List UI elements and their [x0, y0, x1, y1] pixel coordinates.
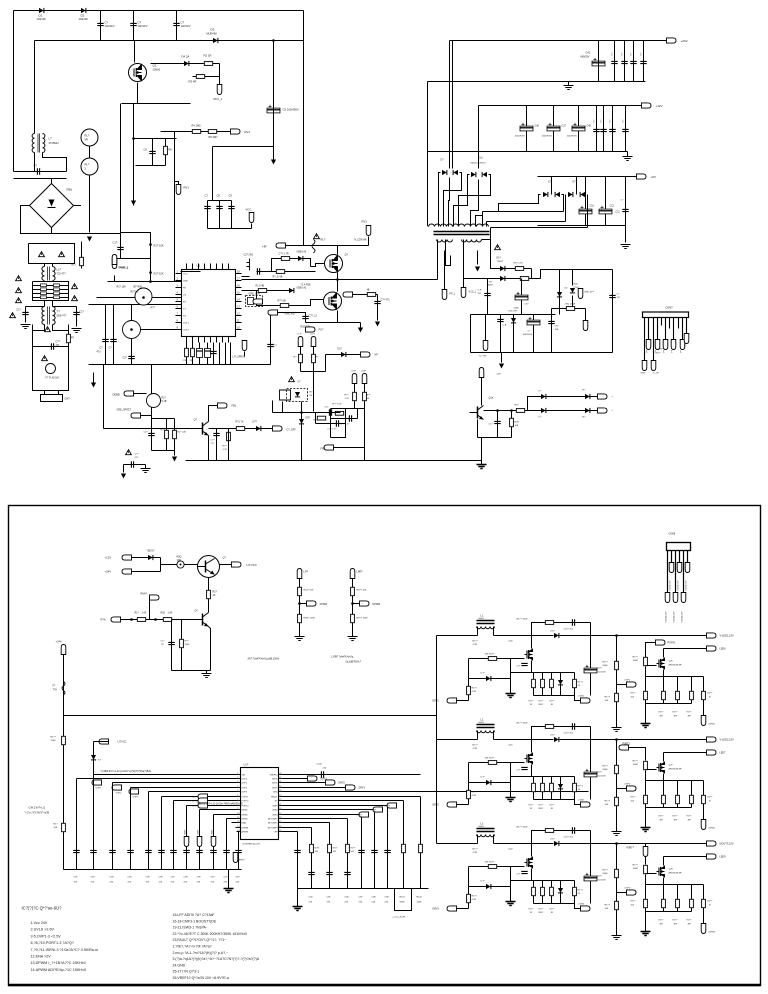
- flag DIM1: [581, 698, 591, 703]
- ground gnd c25: [141, 469, 151, 473]
- svg-text:T.R: T.R: [489, 282, 493, 284]
- svg-text:-GN?: -GN?: [658, 349, 664, 351]
- capacitor C56: [497, 319, 503, 321]
- optocoupler U3: [287, 389, 308, 402]
- svg-text:10K R1??: 10K R1??: [485, 758, 496, 760]
- svg-text:R1??: R1??: [605, 697, 611, 699]
- svg-text:?-1?o-,?(?)?A(?)?+a?B: ?-1?o-,?(?)?A(?)?+a?B: [25, 812, 50, 815]
- wire x477 arrow: [477, 251, 479, 265]
- wire CON8 pin3: [653, 318, 655, 361]
- svg-text:RV1: RV1: [362, 220, 368, 224]
- svg-text:D8C 6P1: D8C 6P1: [509, 311, 519, 313]
- arrow HV down: [271, 160, 276, 165]
- pin U13 R24: [279, 791, 283, 793]
- svg-text:PORT1: PORT1: [668, 642, 677, 645]
- wire ch2 b691: [691, 781, 693, 808]
- ground gnd ch2: [506, 798, 516, 802]
- resistor filt 297b: [54, 296, 60, 299]
- svg-text:FR1: FR1: [321, 447, 326, 451]
- svg-text:1N4148: 1N4148: [79, 17, 89, 21]
- svg-text:10K R1??: 10K R1??: [485, 862, 496, 864]
- svg-text:+24V: +24V: [105, 570, 112, 574]
- svg-text:4.7R: 4.7R: [472, 899, 477, 901]
- svg-text:OVP3: OVP3: [625, 888, 632, 890]
- svg-text:R1??: R1??: [633, 761, 639, 763]
- capacitor C52: [484, 293, 490, 295]
- svg-text:R1??: R1??: [633, 865, 639, 867]
- svg-text:13.DPWM I_?+1B?A??C 15KH±0: 13.DPWM I_?+1B?A??C 15KH±0: [31, 961, 86, 965]
- wire ch3 gate2: [646, 873, 657, 875]
- svg-text:R1??: R1??: [472, 688, 478, 690]
- capacitor CL105: [102, 339, 108, 341]
- wire ch2 r175 up: [645, 753, 647, 761]
- flag DRV2: [326, 780, 336, 785]
- svg-text:4.7R: 4.7R: [472, 691, 477, 693]
- resistor ch3 b703: [702, 899, 706, 907]
- diode D16: [500, 276, 505, 281]
- wire ch2 dim: [575, 800, 581, 805]
- svg-text:APWM: APWM: [242, 831, 249, 834]
- svg-text:C?: C?: [138, 21, 142, 25]
- wire U1 rpin3: [236, 294, 242, 296]
- wire sec hook3: [490, 228, 492, 240]
- svg-text:V-LED,15V: V-LED,15V: [686, 580, 688, 591]
- flag RNA2: [150, 595, 160, 600]
- svg-text:R1??: R1??: [472, 896, 478, 898]
- wire ch2 isen: [703, 808, 705, 820]
- svg-text:ISEN1: ISEN1: [242, 810, 249, 812]
- wire ch3 gate: [469, 866, 525, 868]
- mosfet Q6: [325, 255, 343, 273]
- wire q10 row: [484, 410, 528, 412]
- wire ch3 gr: [510, 867, 512, 887]
- svg-text:10K: 10K: [54, 827, 58, 829]
- flag CON8 p2: [663, 340, 668, 350]
- wire Q7 drain: [337, 280, 339, 292]
- flag PWR_1: [112, 259, 117, 269]
- resistor R31: [165, 430, 169, 438]
- svg-text:R1??: R1??: [603, 662, 609, 664]
- wire c25 row: [124, 464, 146, 466]
- svg-text:104/50UF: 104/50UF: [523, 334, 533, 336]
- svg-text:R5D: R5D: [574, 284, 579, 286]
- ground gnd-left2: [72, 329, 82, 333]
- fuse RT1: [312, 240, 315, 254]
- flag LITVCC2: [99, 739, 109, 744]
- diode D10: [256, 426, 261, 431]
- capacitor R1??c: [344, 872, 350, 874]
- wire ch1 sr542: [542, 673, 544, 696]
- wire ch2 bus2: [646, 780, 704, 782]
- wire corner354: [325, 355, 327, 372]
- wire cap right link: [53, 306, 77, 308]
- wire rail2: [35, 40, 304, 42]
- diode D1 1N4148: [39, 8, 44, 13]
- capacitor C22: [336, 420, 338, 426]
- wire y165 seg: [136, 165, 166, 167]
- wire drop x186: [186, 806, 188, 870]
- wire filt row 289: [33, 289, 69, 291]
- wire ch2 gate2: [646, 769, 657, 771]
- wire plug legs2: [58, 391, 60, 395]
- wire d14 drop l: [439, 173, 441, 227]
- wire x63 down: [63, 716, 65, 870]
- ground gnd LR?: [295, 637, 305, 641]
- wire U13 R drop1: [403, 801, 405, 889]
- arrow x377: [375, 322, 380, 327]
- wire spr: [141, 415, 152, 417]
- svg-text:D1?: D1?: [497, 257, 502, 260]
- transistor Q12: [202, 614, 204, 626]
- capacitor C20: [349, 415, 351, 421]
- svg-text:+5V: +5V: [651, 175, 656, 179]
- svg-text:R1?1: R1?1: [578, 682, 584, 684]
- svg-text:F? TL431VS: F? TL431VS: [46, 377, 60, 380]
- svg-text:104E: 104E: [514, 308, 520, 310]
- wire U1 bpin3: [204, 337, 206, 343]
- wire lit stem: [244, 352, 246, 357]
- flag CN_OFF: [273, 426, 283, 431]
- wire c60 v: [171, 620, 173, 671]
- wire drop x93: [93, 775, 95, 870]
- svg-text:PWR_1: PWR_1: [120, 266, 129, 270]
- junction hb: [336, 278, 339, 281]
- wire2 +C4P drop: [364, 384, 366, 409]
- svg-text:10R: 10R: [177, 559, 182, 562]
- wire c24v 633: [633, 41, 635, 82]
- flag DRV1: [447, 698, 457, 703]
- warn tri 74-298: [72, 296, 78, 301]
- svg-text:10K: 10K: [605, 804, 609, 806]
- svg-text:R1B: R1B: [161, 613, 166, 615]
- svg-text:D1?: D1?: [338, 348, 343, 351]
- flag2 +C1P: [352, 374, 357, 384]
- svg-text:16-18 CMF3-1 BOOST?(DE: 16-18 CMF3-1 BOOST?(DE: [173, 919, 217, 923]
- resistor R5: [208, 130, 216, 134]
- wire sync loop: [395, 889, 412, 911]
- svg-text:DPWM: DPWM: [373, 603, 381, 606]
- wire CON9 pin2: [671, 551, 673, 563]
- wire q8 base feed: [104, 428, 197, 430]
- ground gnd bus869: [224, 889, 234, 893]
- inductor L2: [477, 725, 495, 728]
- wire y418: [331, 418, 358, 420]
- svg-text:R5 4M7: R5 4M7: [209, 135, 219, 139]
- svg-text:V-LED1,15V: V-LED1,15V: [720, 634, 735, 638]
- resistor ch3 sr551: [550, 887, 554, 895]
- junction ch3 616: [615, 842, 618, 845]
- wire gnd12 stem: [627, 152, 629, 157]
- wire ch3 rail l: [437, 843, 478, 845]
- capacitor C92: [90, 850, 96, 852]
- transistor Q3: [135, 288, 152, 305]
- capacitor bottom 207: [205, 349, 211, 358]
- ground gnd ch2r1: [612, 832, 622, 836]
- capacitor C18: [302, 316, 308, 318]
- wire gate1: [311, 264, 325, 267]
- svg-text:Q1: Q1: [153, 64, 157, 68]
- svg-text:471: 471: [56, 344, 61, 347]
- wire d12 top: [551, 177, 553, 195]
- capacitor C7: [204, 206, 210, 208]
- flag RV1c: [366, 226, 371, 236]
- svg-text:D3: D3: [211, 28, 215, 32]
- wire q11 down: [208, 578, 210, 613]
- wire c12v 612: [612, 106, 614, 152]
- resistor R53: [180, 639, 184, 647]
- wire ch2 gnd645: [645, 808, 647, 828]
- svg-text:100K: 100K: [417, 902, 423, 904]
- wire Q1 aux: [151, 63, 220, 65]
- svg-text:+24V: +24V: [681, 39, 688, 43]
- wire r53 v: [181, 620, 183, 671]
- svg-text:OVP1: OVP1: [96, 788, 103, 790]
- wire q10 coll: [481, 378, 483, 406]
- flag NOUT3,15V: [707, 841, 717, 846]
- wire choke left bot: [34, 153, 36, 172]
- flag CON9 u687: [685, 563, 690, 573]
- wire q12 gnd bus: [172, 670, 211, 672]
- wire q12 emit: [209, 627, 211, 671]
- flag ch3 OVP: [627, 890, 637, 895]
- wire Q20b d: [531, 636, 533, 649]
- flag DRV2: [447, 802, 457, 807]
- wire ch3 isen: [703, 912, 705, 924]
- wire cap line1: [14, 171, 67, 173]
- wire bus888: [298, 888, 429, 890]
- wire U1 rpin7: [236, 322, 242, 324]
- svg-text:ISEN2: ISEN2: [709, 828, 716, 830]
- wire ch2 rail l: [437, 739, 478, 741]
- diode D15: [500, 266, 505, 271]
- wire ch2 b677: [677, 781, 679, 808]
- connector CON8: [643, 312, 689, 318]
- wire U1 bpin2: [198, 337, 200, 343]
- wire x131 cap: [131, 354, 133, 365]
- transformer T1 core: [434, 232, 490, 235]
- wire x345 seg: [331, 409, 346, 438]
- capacitor CX1: [37, 168, 39, 174]
- wire U13 R net3: [283, 809, 375, 811]
- flag PORT3f: [643, 847, 648, 857]
- wire ch1 ovp: [617, 684, 627, 686]
- wire snub1 loop: [272, 259, 311, 272]
- junction snub: [149, 243, 152, 246]
- transistor Q10: [477, 407, 479, 419]
- resistor ch3 b677: [676, 899, 680, 907]
- junction q4: [130, 328, 133, 331]
- wire d12 r: [562, 195, 564, 212]
- svg-text:LIT.VCC: LIT.VCC: [247, 563, 257, 567]
- wire drop x226: [226, 819, 228, 870]
- svg-text:100R: 100R: [633, 868, 639, 870]
- flag CON9 d675: [673, 593, 678, 603]
- svg-text:PORT3: PORT3: [242, 806, 250, 808]
- wire d23 line: [577, 410, 598, 412]
- wire d12 l: [499, 195, 541, 212]
- wire d19 v: [513, 315, 515, 353]
- resistor filt 297a: [41, 296, 47, 299]
- capacitor ch2 C10x: [584, 772, 597, 777]
- svg-text:OVP1: OVP1: [625, 680, 632, 682]
- svg-text:C1?: C1?: [113, 241, 118, 245]
- flag OVP3: [129, 789, 139, 794]
- wire x230 drop: [230, 343, 232, 365]
- flag +C4?: [311, 337, 316, 347]
- wire ch1 645 drop: [645, 667, 647, 677]
- transistor Q5 small: [247, 259, 250, 271]
- wire gnd rail81: [428, 81, 646, 83]
- wire T1 left: [428, 226, 429, 227]
- svg-text:15.LFF ADI?Ii ?A? C?13aF: 15.LFF ADI?Ii ?A? C?13aF: [173, 913, 215, 917]
- wire 12v feed: [132, 557, 161, 559]
- bead L5: [177, 561, 184, 568]
- wire ntc col: [89, 129, 91, 233]
- wire ch3 gl: [468, 867, 470, 887]
- wire drop x238: [238, 832, 240, 870]
- capacitor ch1 Cl: [572, 619, 574, 625]
- wire +5 gnd rail: [538, 225, 626, 227]
- svg-text:102/1KV: 102/1KV: [138, 24, 148, 28]
- wire cA v: [500, 315, 502, 353]
- wire ch2 x616: [616, 740, 618, 828]
- wire U13 R net5: [283, 818, 348, 820]
- resistor R26: [335, 411, 343, 415]
- wire PFC flag stub: [219, 77, 221, 85]
- wire U1 bpin0: [186, 337, 188, 343]
- svg-text:PORT3: PORT3: [191, 806, 199, 808]
- wire c25 l: [123, 465, 125, 473]
- wire bus drop DEBB: [151, 365, 153, 395]
- svg-text:HR: HR: [263, 245, 267, 249]
- svg-text:96uH: 96uH: [479, 722, 485, 724]
- svg-text:R1? 24K: R1? 24K: [178, 432, 187, 434]
- wire ch2 gr: [510, 763, 512, 783]
- warn tri 47-329: [45, 327, 51, 332]
- flag V-LED1,15V: [707, 633, 717, 638]
- wire Q6 src: [337, 273, 339, 280]
- resistor R13: [80, 257, 84, 265]
- flag isw x199: [197, 837, 202, 847]
- wire bridge feed: [51, 179, 53, 184]
- junction 281: [149, 280, 152, 283]
- svg-text:DRV3: DRV3: [272, 788, 278, 790]
- svg-text:5.1B: 5.1B: [162, 400, 167, 403]
- flag PORT2: [198, 798, 208, 803]
- wire C9 stub: [231, 201, 233, 229]
- resistor R50: [207, 590, 211, 598]
- wire net drop: [174, 451, 176, 456]
- resistor R34: [510, 418, 514, 426]
- wire fb rail top: [541, 270, 613, 279]
- capacitor cx374: [371, 850, 377, 852]
- wire ch3 vled: [595, 843, 707, 845]
- capacitor C8?: [223, 850, 229, 852]
- capacitor C95: [145, 850, 151, 852]
- resistor ch2 R172: [615, 765, 619, 773]
- svg-text:C?_OFF: C?_OFF: [287, 429, 297, 432]
- wire CON9 pin4: [679, 551, 681, 563]
- svg-text:OUT1: OUT1: [183, 323, 190, 325]
- wire x133 seg: [133, 104, 135, 206]
- resistor ch3 sr542: [541, 887, 545, 895]
- junction q10a: [496, 409, 499, 412]
- wire y447: [331, 447, 365, 449]
- wire ch3 r175 up: [645, 857, 647, 865]
- wire T2 br: [53, 325, 69, 331]
- flag APWMv: [233, 853, 238, 863]
- svg-text:10E: 10E: [555, 329, 559, 331]
- wire ch2 r171: [574, 777, 576, 800]
- wire U1 tpin3: [204, 264, 206, 270]
- wire U1 rpin8: [236, 329, 242, 331]
- capacitor C55: [609, 295, 615, 297]
- wire ch2 x590: [590, 727, 592, 800]
- diode D22: [585, 394, 590, 399]
- wire d13 l: [565, 195, 567, 222]
- diode ch3 Dg: [486, 884, 491, 889]
- svg-text:D??: D??: [253, 421, 258, 424]
- svg-text:ISW?: ISW?: [357, 815, 363, 817]
- svg-text:7,?9,?11.ISENI-3 ?1'0a?A?C? 0: 7,?9,?11.ISENI-3 ?1'0a?A?C? 0.59/Ra-m: [31, 948, 98, 952]
- wire CON8 pin1: [644, 318, 646, 361]
- svg-text:R1?1: R1?1: [578, 890, 584, 892]
- resistor filt 293a: [41, 292, 47, 295]
- wire C8 stub: [219, 201, 221, 229]
- flag isw x213: [211, 837, 216, 847]
- wire leftv 105: [105, 305, 107, 365]
- wire q4 v: [131, 305, 133, 321]
- svg-text:D1: D1: [39, 14, 43, 18]
- diode D9: [341, 352, 346, 357]
- capacitor C4a: [173, 23, 179, 25]
- wire d18 v: [572, 270, 574, 286]
- svg-text:Sb520CDW301: Sb520CDW301: [471, 163, 487, 165]
- svg-text:BT?438: BT?438: [134, 286, 143, 289]
- wire ch1 gate2: [646, 665, 657, 667]
- capacitor C91: [73, 850, 79, 852]
- capacitor C19: [374, 301, 380, 303]
- pin U13 L13: [237, 827, 241, 829]
- wire y412: [273, 412, 302, 414]
- wire ch1 led drop: [663, 649, 665, 658]
- svg-text:1.7K: 1.7K: [223, 449, 228, 451]
- svg-text:R141: R141: [400, 897, 406, 899]
- pin U13 R23: [279, 796, 283, 798]
- resistor LR? top: [298, 587, 302, 595]
- flag CON9 d683: [681, 593, 686, 603]
- capacitor C25: [131, 461, 133, 467]
- wire q11 out: [220, 564, 232, 566]
- svg-text:C41: C41: [586, 51, 591, 55]
- wire ch2 b645: [645, 781, 647, 808]
- junction base2: [154, 618, 157, 621]
- wire ch3 srz: [560, 881, 562, 904]
- svg-text:900K: 900K: [400, 902, 406, 904]
- wire +C4? drop: [313, 347, 315, 372]
- wire DPWM stub: [353, 603, 360, 605]
- svg-text:FB1: FB1: [232, 404, 237, 408]
- svg-text:RV1: RV1: [245, 130, 251, 134]
- wire ch1 sr551: [551, 673, 553, 696]
- capacitor ch3 Cl: [572, 827, 574, 833]
- wire drop x161: [161, 797, 163, 870]
- wire U1 bdrop 199: [199, 343, 201, 365]
- wire cap left link: [26, 306, 45, 308]
- svg-text:10K R1??: 10K R1??: [485, 654, 496, 656]
- capacitor CL4: [128, 356, 134, 358]
- flag +24V: [667, 38, 677, 43]
